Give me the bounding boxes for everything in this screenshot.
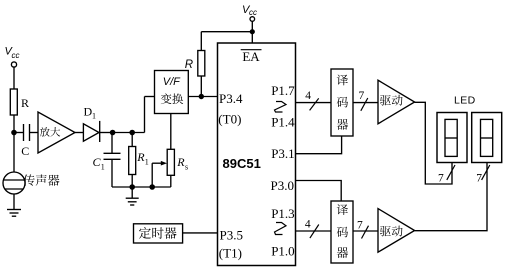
svg-text:(T1): (T1) — [219, 246, 242, 261]
bus width slash 7 (decoder1 out) — [359, 90, 368, 111]
svg-text:1: 1 — [92, 112, 96, 121]
wire node D to pull-up resistor R — [200, 76, 202, 97]
svg-text:C: C — [21, 144, 29, 158]
pin P3.5 (T1) — [219, 227, 243, 260]
wire C to amplifier — [30, 132, 39, 134]
junction dot R1/ground on rail — [129, 184, 135, 190]
bus P1.3-P1.0 wire — [296, 230, 332, 232]
node B junction dot (detector output) — [110, 130, 116, 136]
label 传声器 (microphone) — [23, 174, 59, 185]
svg-text:4: 4 — [305, 90, 311, 102]
wire microphone to ground — [13, 194, 15, 210]
amplifier 放大 (preamp) — [38, 112, 75, 153]
wire driver2 to LED digit 2 — [415, 163, 487, 231]
range squiggle P1.3..P1.0 — [275, 223, 287, 235]
diode D1 — [83, 105, 99, 143]
svg-text:cc: cc — [12, 51, 20, 60]
capacitor C (coupling) — [21, 124, 29, 158]
block 定时器 (timer) — [134, 224, 183, 243]
Vcc terminal circle (top) — [250, 17, 255, 32]
wire decoder2 to driver2 — [353, 230, 378, 232]
wire pull-up R to Vcc rail — [201, 32, 252, 51]
svg-text:R: R — [176, 155, 185, 169]
capacitor C1 (filter) — [93, 153, 121, 171]
wire node A to capacitor C — [14, 132, 24, 134]
svg-text:V/F: V/F — [163, 76, 181, 88]
svg-text:(T0): (T0) — [218, 112, 241, 127]
svg-text:EA: EA — [242, 49, 260, 64]
wire R to node A — [13, 115, 15, 133]
svg-text:R: R — [21, 96, 29, 110]
svg-text:P1.4: P1.4 — [271, 114, 295, 129]
svg-text:1: 1 — [101, 163, 105, 172]
svg-text:P1.7: P1.7 — [271, 83, 295, 98]
wire P3.0 to decoder2 enable — [296, 181, 342, 202]
microphone BM (electret symbol) — [3, 172, 25, 194]
svg-text:7: 7 — [438, 173, 444, 185]
wire Rs bottom to rail — [170, 175, 172, 187]
svg-text:s: s — [185, 163, 188, 172]
bus width slash 4 (top) — [305, 90, 319, 110]
range squiggle P1.7..P1.4 — [275, 102, 287, 113]
svg-text:LED: LED — [454, 95, 476, 107]
wire D1 to node B — [100, 132, 113, 134]
wire node A to microphone — [13, 133, 15, 173]
bottom rail wire — [112, 186, 171, 188]
svg-text:cc: cc — [249, 8, 257, 17]
driver1 amplifier 驱动 — [378, 80, 415, 124]
svg-text:1: 1 — [145, 157, 149, 166]
node C junction dot (R1 tap) — [129, 130, 135, 136]
potentiometer Rs — [167, 149, 188, 175]
wire node E to chip top — [251, 32, 253, 43]
svg-text:P1.3: P1.3 — [271, 206, 294, 221]
bus P1.7-P1.4 wire — [296, 102, 332, 104]
bus width slash 7 (digit2 feed) — [476, 165, 490, 185]
svg-text:7: 7 — [476, 173, 482, 185]
wire node C up to V/F input — [145, 97, 155, 133]
ground (microphone) — [7, 210, 21, 217]
ground (analog rail) — [126, 187, 139, 205]
wiper wire and arrow into Rs — [152, 161, 167, 187]
svg-text:R: R — [185, 59, 193, 71]
resistor R1 — [129, 147, 149, 175]
svg-text:P3.0: P3.0 — [271, 178, 294, 193]
block decoder2 译码器 — [331, 201, 353, 263]
wire timer to P3.5 — [183, 232, 218, 234]
wire amplifier to diode D1 — [75, 132, 83, 134]
bus width slash 7 (decoder2 out) — [357, 220, 369, 239]
wire decoder1 to driver1 — [353, 102, 378, 104]
driver2 amplifier 驱动 — [378, 209, 415, 253]
LED digit 1 — [437, 113, 467, 163]
bus width slash 7 (digit1 feed) — [438, 165, 455, 185]
svg-text:P3.1: P3.1 — [271, 146, 294, 161]
svg-text:P3.4: P3.4 — [219, 91, 243, 106]
node E junction dot (Vcc rail) — [250, 29, 255, 34]
junction dot wiper leg on rail — [149, 184, 155, 190]
pin EA-bar — [241, 49, 262, 64]
wire Rs top to V/F converter — [170, 114, 172, 150]
wire R1 to bottom rail — [131, 175, 133, 188]
block U1 V/F converter 变换 — [155, 71, 189, 114]
node D junction dot (pull-up on P3.4) — [199, 94, 204, 99]
wire node B to capacitor C1 — [111, 133, 113, 154]
pin P3.4 (T0) — [218, 91, 243, 126]
net Vcc (top supply) — [242, 4, 257, 17]
svg-text:7: 7 — [359, 90, 365, 102]
wire P3.1 to decoder1 enable — [296, 136, 342, 154]
wire C1 to bottom rail — [111, 159, 113, 187]
svg-text:4: 4 — [305, 218, 311, 230]
bus width slash 4 (bottom) — [305, 218, 319, 238]
Vcc terminal circle (left) — [11, 62, 16, 67]
svg-text:89C51: 89C51 — [223, 156, 261, 171]
svg-text:7: 7 — [357, 220, 363, 232]
net Vcc (left supply) — [5, 45, 20, 60]
wire node C to resistor R1 — [131, 133, 133, 147]
svg-text:P1.0: P1.0 — [271, 243, 294, 258]
wire node B to node C — [113, 132, 145, 134]
svg-text:P3.5: P3.5 — [220, 227, 243, 242]
wire Vcc circle to resistor R — [13, 67, 15, 89]
resistor R (pull-up) — [185, 51, 205, 77]
wire V/F output to P3.4 — [188, 96, 217, 98]
MCU U2 89C51 — [218, 43, 296, 266]
resistor R (left bias) — [10, 89, 29, 115]
block decoder1 译码器 — [331, 69, 353, 136]
node A junction dot (R / C / mic) — [11, 130, 17, 136]
wire driver1 to LED digit 1 — [415, 102, 452, 184]
LED digit 2 — [472, 113, 502, 163]
